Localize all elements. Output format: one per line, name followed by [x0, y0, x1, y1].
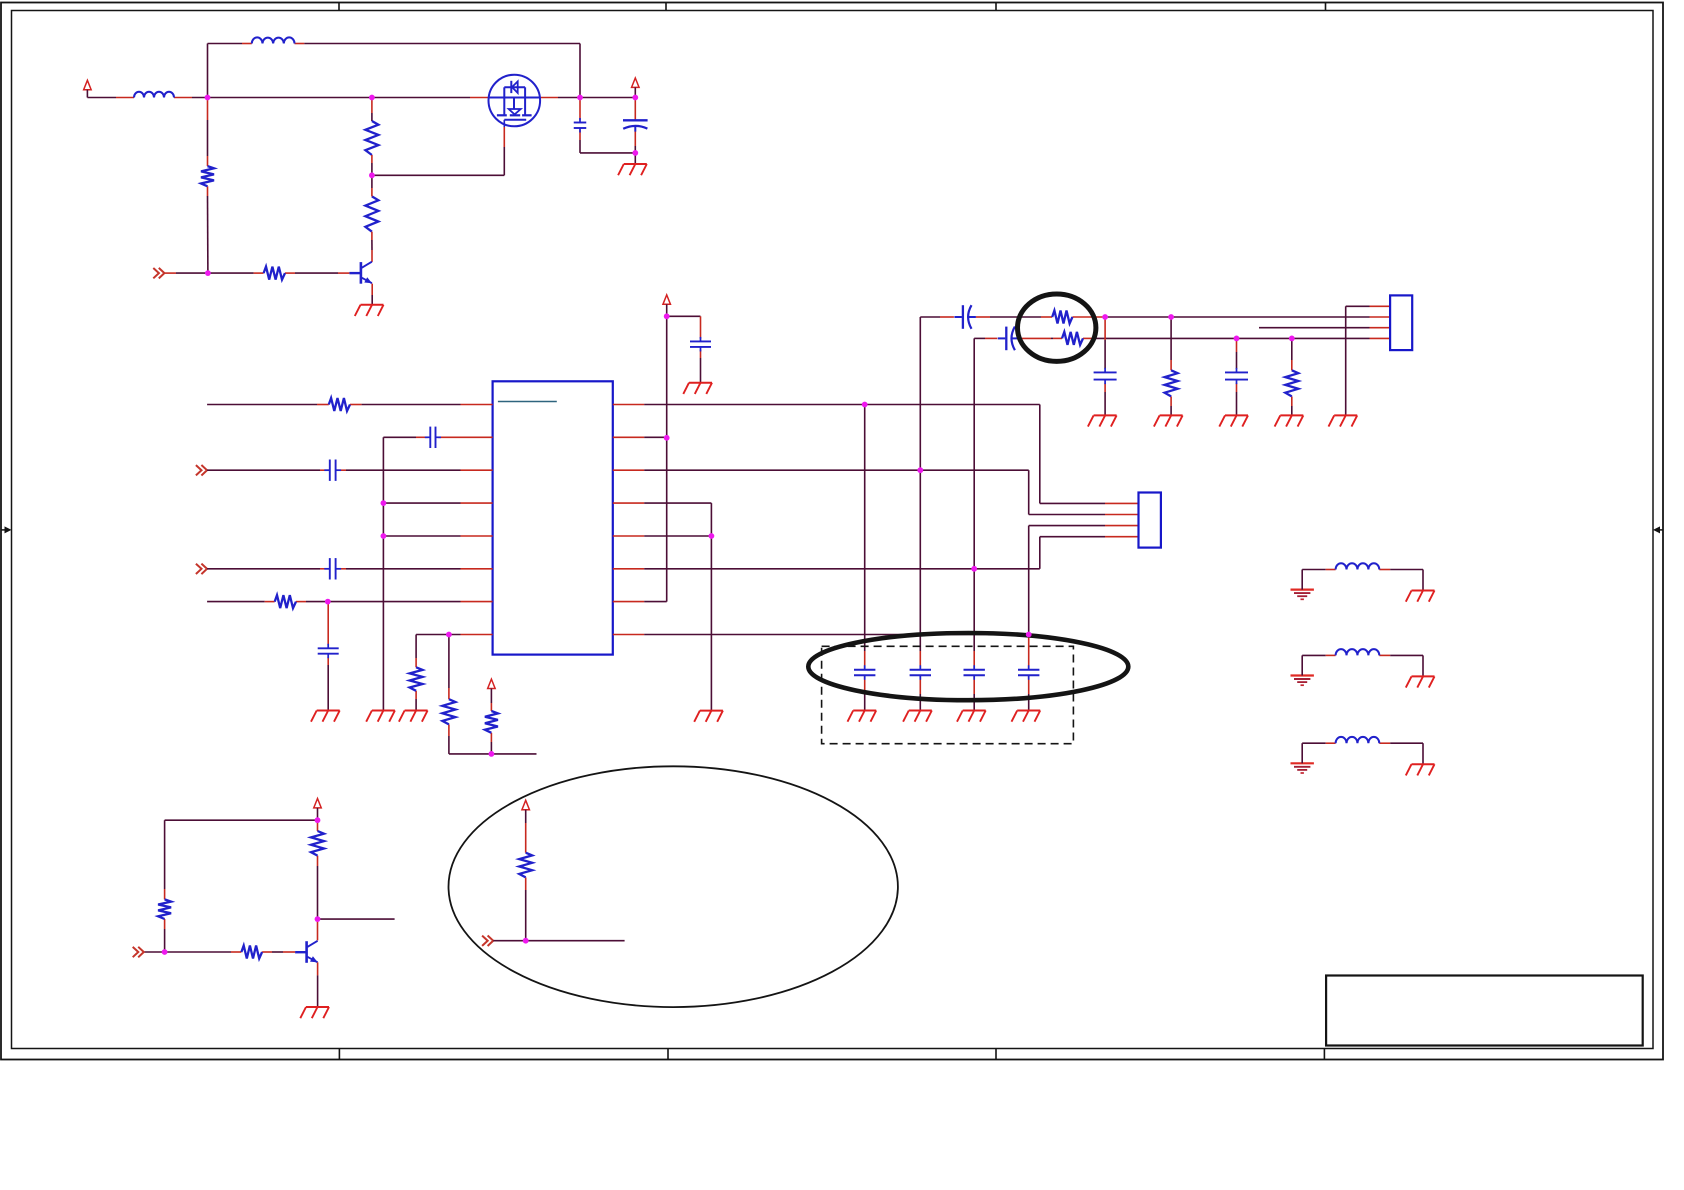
wire Q2 output stub: [318, 918, 395, 920]
wire bank cap4 vertical: [1028, 635, 1030, 711]
power flag VCC6: [314, 799, 322, 808]
resistor R4: [264, 267, 285, 280]
ground G16: [1329, 415, 1358, 426]
capacitor C10: [964, 665, 985, 680]
ground G14: [1219, 415, 1248, 426]
ground G11: [1012, 711, 1041, 722]
resistor R17: [519, 853, 532, 878]
wire divider branch: [207, 98, 209, 274]
ground G17: [1406, 591, 1435, 602]
wire row3 left: [207, 469, 460, 471]
ground G10: [957, 711, 986, 722]
wire LC filter C: [1302, 743, 1423, 764]
wire dropper4: [1291, 338, 1293, 415]
wire row3 right: [644, 470, 1138, 514]
junction dot 9: [381, 533, 387, 539]
wire connector pin3 vertical: [1029, 526, 1139, 635]
capacitor C2 polarized: [623, 120, 648, 131]
wire cap row B: [974, 337, 1390, 339]
ground G19: [1406, 764, 1435, 775]
input port P1: [153, 268, 164, 279]
junction dot 23: [1289, 336, 1295, 342]
ground G4: [366, 711, 395, 722]
wire gate divider lower: [371, 175, 373, 262]
wire M1 gate lead: [503, 120, 505, 176]
wire row8 left: [416, 634, 460, 636]
wire R9 branch: [490, 689, 492, 754]
wire VCC2 stem: [634, 87, 636, 97]
ground G5: [399, 711, 428, 722]
resistor R13: [1285, 370, 1298, 396]
resistor R6: [275, 595, 296, 608]
junction dot 13: [664, 313, 670, 319]
junction dot 8: [381, 500, 387, 506]
resistor R8: [442, 699, 455, 724]
capacitor C1: [574, 118, 587, 133]
ic U1 marking: [498, 401, 557, 403]
power flag VCC4: [488, 679, 496, 688]
wire Q1 base: [165, 272, 350, 274]
wire row8 right: [644, 634, 1028, 636]
connector J2: [1139, 493, 1161, 548]
resistor R14: [311, 831, 324, 856]
capacitor C11: [1018, 665, 1039, 680]
title block: [1326, 976, 1643, 1046]
wire pullup stub: [493, 940, 624, 942]
power flag VCC2: [632, 78, 640, 87]
power flag VCC3: [663, 295, 671, 304]
wire dropper1: [1104, 317, 1106, 415]
junction dot 17: [709, 533, 715, 539]
ic U1: [493, 381, 613, 654]
resistor R1: [201, 166, 214, 186]
ground G9: [694, 711, 723, 722]
wire R14 branch: [317, 820, 319, 919]
wire Q1 emitter: [371, 284, 373, 305]
wire C2 branch: [634, 98, 636, 164]
resistor R5: [329, 398, 350, 411]
wire top feedback loop: [208, 44, 581, 98]
wire row5 left: [383, 535, 460, 537]
dashed box cap bank: [822, 646, 1074, 743]
input port P5: [482, 936, 493, 947]
wire bank cap2 vertical: [919, 317, 921, 711]
wire Q2 base: [144, 951, 295, 953]
junction dot 7: [632, 150, 638, 156]
capacitor C12 polarized: [954, 305, 976, 329]
ground G18: [1406, 676, 1435, 687]
junction dot 24: [315, 817, 321, 823]
wire dropper3: [1236, 338, 1238, 415]
frame left zone arrow: [1, 526, 12, 533]
junction dot 27: [523, 938, 529, 944]
wire row5 right: [644, 535, 711, 537]
wire C7 branch: [700, 316, 702, 382]
resistor R15: [241, 946, 262, 959]
wire left pullup: [164, 820, 166, 952]
junction dot 19: [1026, 632, 1032, 638]
wire row2 left: [383, 436, 460, 438]
junction dot 10: [325, 599, 331, 605]
capacitor C15: [1225, 368, 1248, 384]
junction dot 5: [577, 95, 583, 101]
ground G12: [1088, 415, 1117, 426]
capacitor C6: [318, 644, 339, 658]
wire R7 branch: [415, 635, 417, 711]
junction dot 22: [1234, 336, 1240, 342]
wire row7 right: [644, 601, 667, 603]
capacitor C8: [854, 665, 875, 680]
wire row1 left: [207, 404, 460, 406]
wire gate divider upper: [371, 98, 373, 122]
wire row6 left: [207, 568, 460, 570]
wire LC filter B: [1302, 655, 1423, 676]
inductor L3: [1336, 563, 1380, 569]
mosfet M1: [489, 75, 541, 127]
inductor L2: [252, 37, 295, 43]
ground G7: [848, 711, 877, 722]
wire input rail: [87, 97, 635, 99]
ground G3: [311, 711, 340, 722]
wire left bypass vertical: [382, 437, 384, 710]
earth ground EB: [1291, 676, 1314, 686]
capacitor C9: [910, 665, 931, 680]
junction dot 20: [1102, 314, 1108, 320]
wire Q2 emitter: [317, 962, 319, 1006]
junction dot 12: [489, 751, 495, 757]
wire VCC1 stem: [86, 90, 88, 98]
wire connector J1 pin3: [1259, 327, 1390, 329]
junction dot 16: [917, 467, 923, 473]
wire C1 branch: [580, 98, 635, 153]
junction dot 11: [446, 632, 452, 638]
wire row4 right: [644, 503, 711, 536]
capacitor C3: [425, 427, 441, 448]
resistor R7: [410, 667, 423, 691]
capacitor C5: [324, 558, 341, 579]
wire R17 branch: [525, 810, 527, 941]
junction dot 25: [315, 916, 321, 922]
resistor R3: [365, 196, 378, 231]
transistor Q1: [349, 262, 372, 284]
annotation ellipse bottom: [449, 766, 898, 1007]
junction dot 1: [205, 95, 211, 101]
ground Q1: [355, 305, 384, 316]
wire C6 branch: [327, 602, 329, 711]
junction dot 14: [664, 435, 670, 441]
resistor R11: [1062, 332, 1083, 345]
resistor R10: [1052, 311, 1072, 324]
earth ground EA: [1291, 590, 1314, 600]
ground G20: [300, 1007, 329, 1018]
capacitor C13 polarized: [998, 327, 1020, 351]
frame right zone arrow: [1653, 526, 1663, 533]
wire bank cap1 vertical: [864, 405, 866, 711]
wire LC filter A: [1302, 570, 1423, 591]
junction dot 26: [162, 949, 168, 955]
input port P2: [196, 465, 207, 476]
wire VCC3 node: [667, 304, 701, 316]
inductor L4: [1336, 649, 1380, 655]
capacitor C7: [690, 337, 711, 352]
junction dot 21: [1168, 314, 1174, 320]
wire row6 right: [644, 537, 1138, 569]
power flag VCC1: [84, 80, 92, 89]
junction dot 2: [369, 95, 375, 101]
wire row5 ground vertical: [710, 536, 712, 711]
resistor R9: [485, 711, 498, 733]
wire connector J1 pin1: [1346, 306, 1390, 415]
ground G6: [683, 383, 712, 394]
ground G15: [1275, 415, 1304, 426]
wire R8 branch: [449, 635, 537, 754]
wire cap row A: [920, 316, 1390, 318]
connector J1: [1390, 295, 1412, 350]
wire ic supply vertical: [666, 316, 668, 601]
wire bank cap3 vertical: [973, 338, 975, 710]
frame tick marks top: [339, 3, 1326, 11]
frame tick marks bottom: [339, 1049, 1324, 1060]
ground G13: [1154, 415, 1183, 426]
resistor R2: [365, 121, 378, 155]
wire row4 left: [383, 502, 460, 504]
transistor Q2: [295, 941, 318, 963]
capacitor C14: [1094, 368, 1117, 384]
junction dot 15: [862, 402, 868, 408]
capacitor C4: [324, 460, 341, 481]
wire dropper2: [1170, 317, 1172, 415]
junction dot 6: [632, 95, 638, 101]
annotation circle resistors: [1017, 294, 1095, 361]
wire row1 right: [644, 405, 1138, 504]
resistor R16: [158, 899, 171, 919]
wire row7 left: [207, 601, 460, 603]
ground G2: [618, 164, 647, 175]
wire Q2 collector: [317, 919, 319, 940]
inductor L5: [1336, 737, 1380, 743]
junction dot 18: [971, 566, 977, 572]
wire VCC6 node: [165, 808, 318, 820]
ic U1 right pins: [613, 405, 644, 635]
earth ground EC: [1291, 763, 1314, 773]
power flag VCC5: [522, 800, 530, 809]
wire row2 right: [644, 436, 667, 438]
inductor L1: [134, 92, 174, 98]
junction dot 4: [205, 270, 211, 276]
ic U1 left pins: [461, 405, 493, 635]
ground G8: [903, 711, 932, 722]
input port P3: [196, 564, 207, 575]
junction dot 3: [369, 172, 375, 178]
input port P4: [133, 947, 144, 958]
resistor R12: [1165, 370, 1178, 396]
annotation ellipse cap bank: [808, 633, 1128, 700]
wire gate node: [372, 155, 504, 175]
